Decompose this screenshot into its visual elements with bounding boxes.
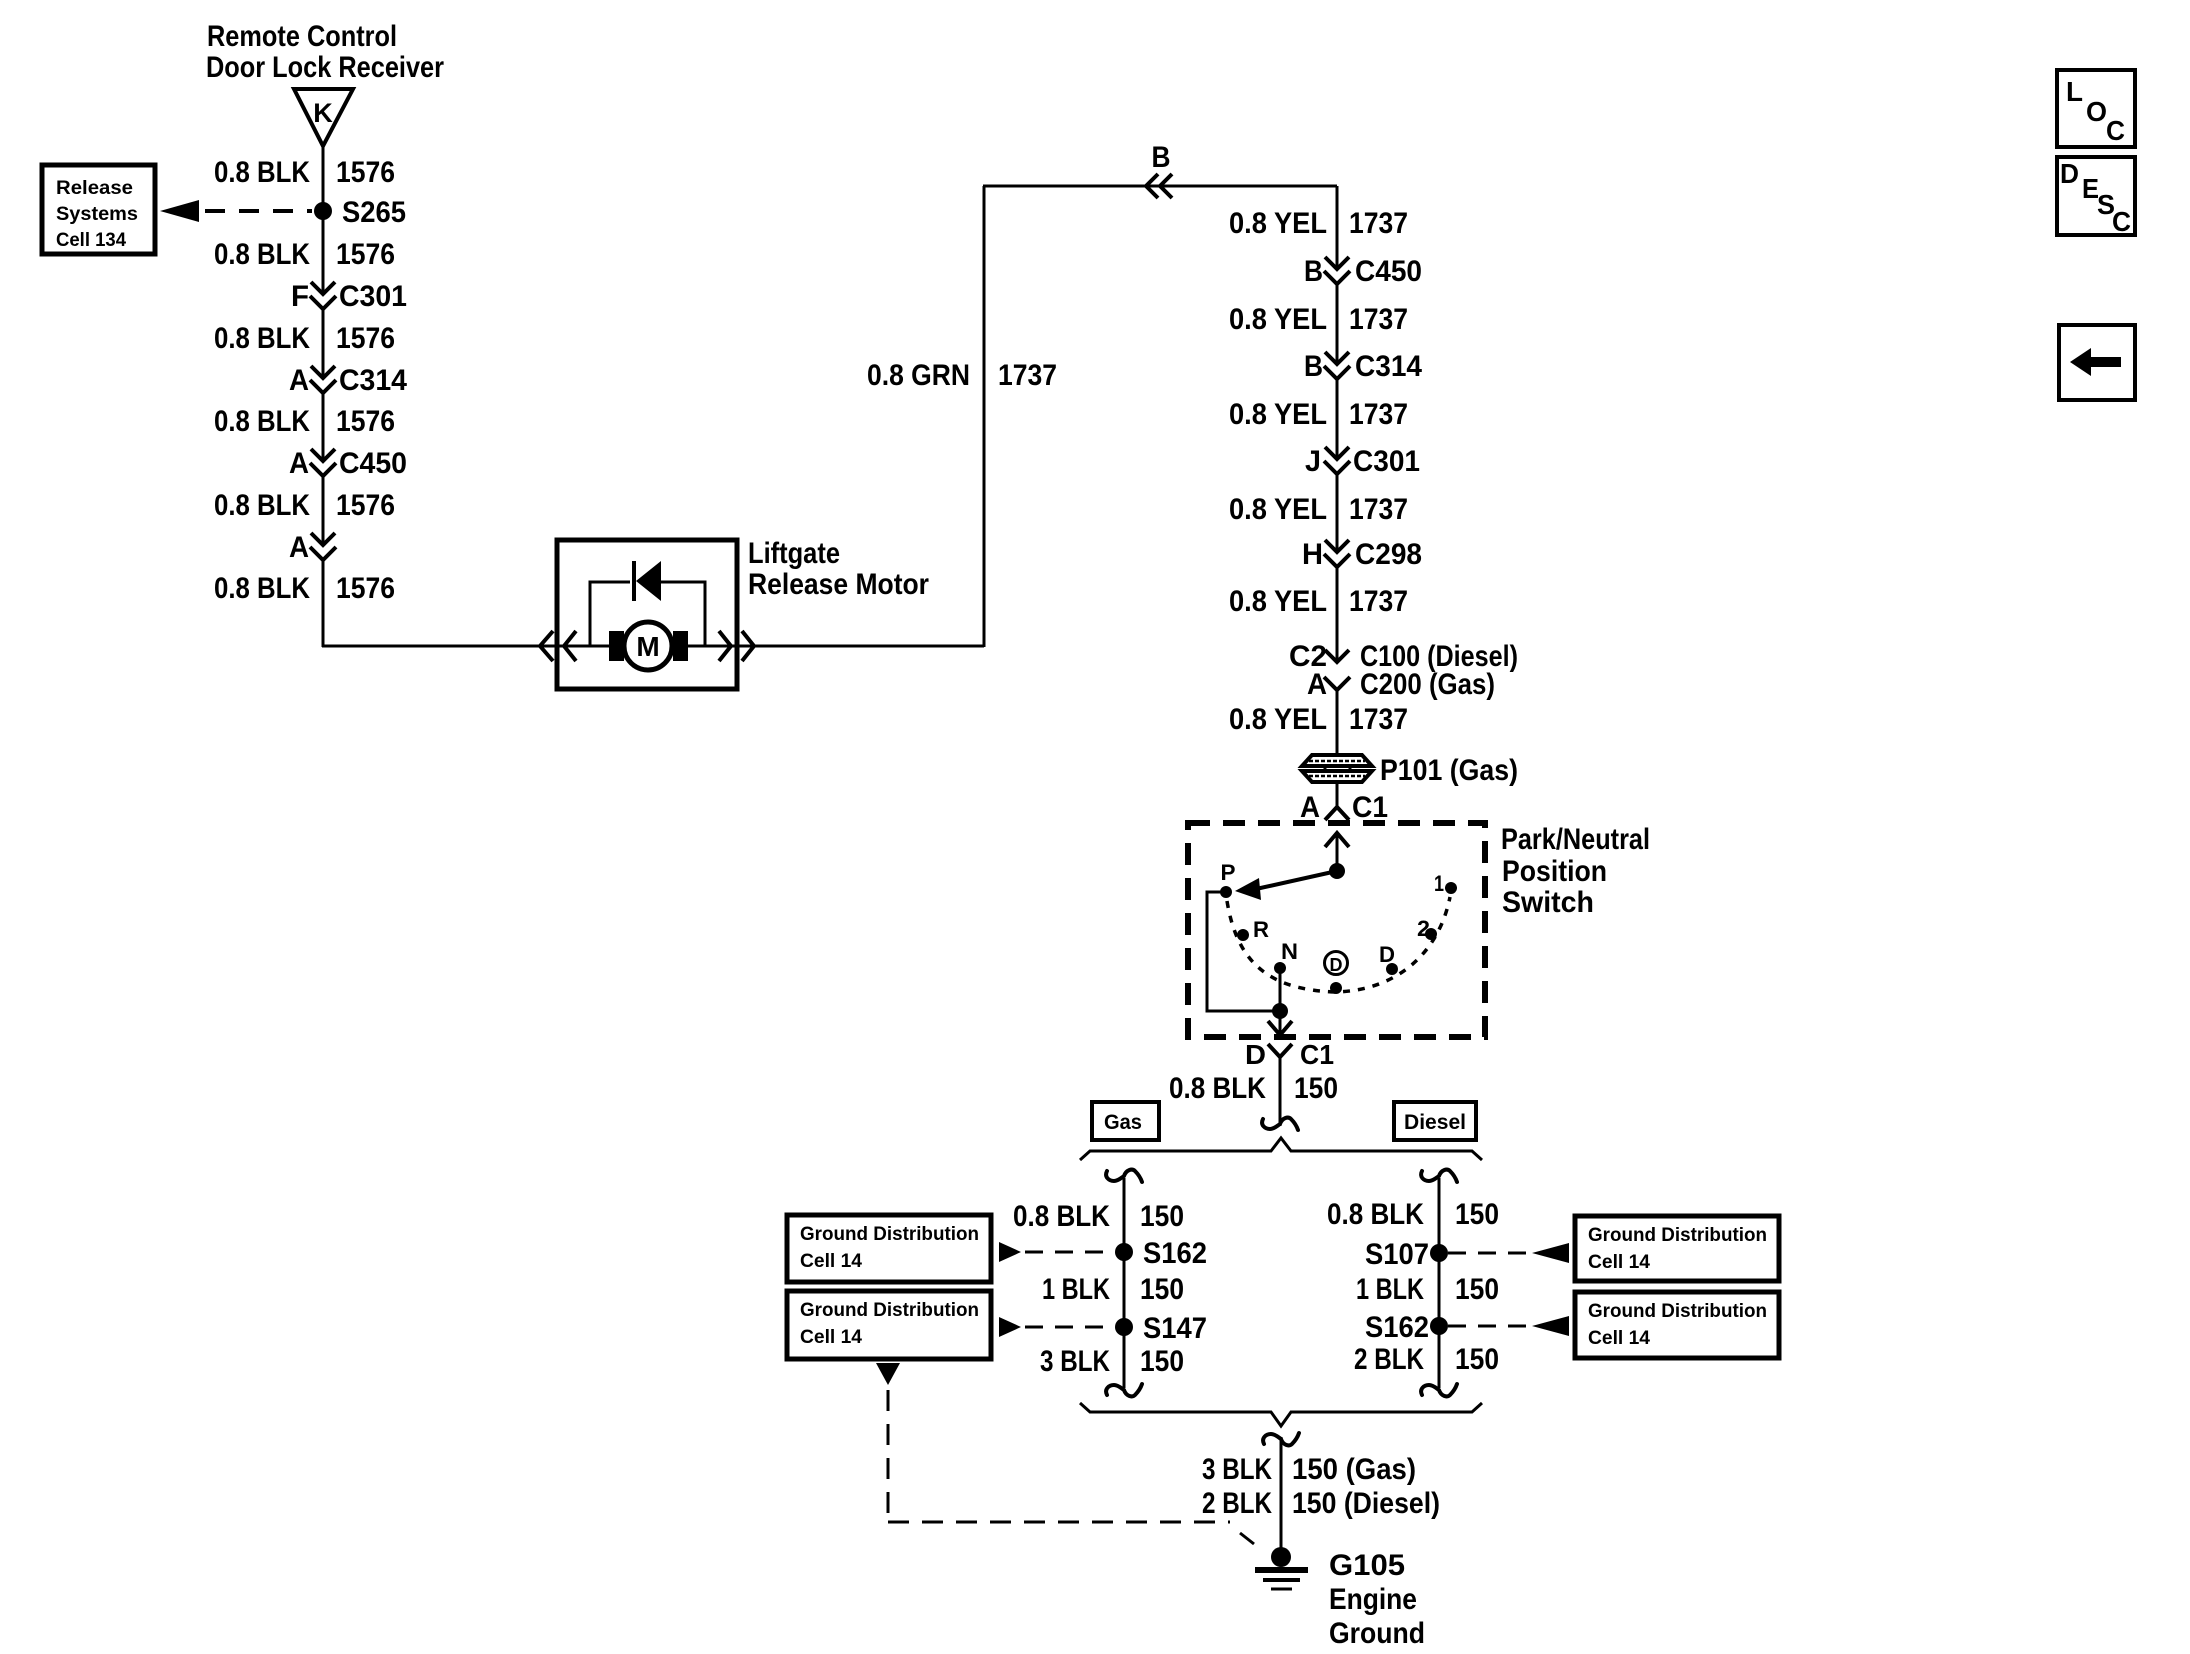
svg-text:O: O [2086,96,2107,127]
svg-text:150: 150 [1294,1072,1338,1105]
svg-text:Engine: Engine [1329,1583,1417,1616]
N contact drop wire [1279,970,1282,1011]
svg-text:Release: Release [56,178,133,199]
svg-text:Cell 14: Cell 14 [800,1251,862,1272]
contact N [1274,962,1286,974]
wire 0.8 YEL 1737 [1336,283,1339,363]
reference box: Ground Distribution Cell 14 (right lower) [1575,1292,1779,1358]
svg-text:1576: 1576 [336,156,395,189]
svg-text:3 BLK: 3 BLK [1040,1345,1110,1378]
gas branch wire bottom curl [1106,1384,1142,1396]
wire: K to S265 (0.8 BLK 1576) [322,146,325,293]
svg-text:C301: C301 [1353,445,1420,478]
svg-text:Cell 14: Cell 14 [800,1327,862,1348]
svg-text:P: P [1221,860,1236,885]
arrow + dashed reference from S162 [1448,1325,1528,1328]
svg-text:1: 1 [1434,871,1444,896]
svg-text:1737: 1737 [1349,493,1408,526]
svg-text:150: 150 [1140,1345,1184,1378]
svg-text:150: 150 [1455,1343,1499,1376]
wire 0.8 YEL 1737 [1336,186,1339,268]
dashed contact arc P-R-N-D-D-2-1 [1227,897,1450,992]
svg-text:0.8 YEL: 0.8 YEL [1229,303,1327,336]
motor brushes [609,631,624,661]
in-line connector A (unnamed) [311,533,335,545]
svg-text:D: D [1245,1039,1266,1070]
svg-text:Diesel: Diesel [1404,1111,1466,1134]
svg-text:Ground Distribution: Ground Distribution [1588,1225,1767,1246]
legend box LOC [2057,70,2135,147]
svg-text:C1: C1 [1352,791,1388,824]
options bracket (bottom, merge) [1080,1403,1482,1426]
svg-text:D: D [1330,955,1343,975]
svg-text:0.8 BLK: 0.8 BLK [1327,1198,1424,1231]
svg-text:L: L [2066,76,2083,107]
svg-text:Liftgate: Liftgate [748,537,840,570]
splice S162 (gas) [1115,1243,1133,1261]
switch common node [1329,863,1345,879]
wire 0.8 YEL 1737 [1336,473,1339,551]
dashed reference: Ground Distribution Cell 14 to G105 [876,1363,900,1385]
svg-text:1576: 1576 [336,238,395,271]
svg-text:150 (Gas): 150 (Gas) [1292,1453,1416,1486]
svg-text:H: H [1302,538,1323,571]
svg-text:150: 150 [1140,1200,1184,1233]
wire: top run to right column [983,185,1337,188]
svg-text:0.8 YEL: 0.8 YEL [1229,585,1327,618]
splice S265 [314,202,332,220]
svg-text:J: J [1305,445,1321,478]
svg-text:C1: C1 [1300,1039,1334,1070]
svg-text:1737: 1737 [1349,585,1408,618]
svg-text:S147: S147 [1143,1312,1207,1345]
svg-text:C298: C298 [1355,538,1422,571]
svg-text:1737: 1737 [998,359,1057,392]
svg-text:Door Lock Receiver: Door Lock Receiver [206,51,444,84]
options bracket (top) [1080,1138,1482,1160]
in-line connector A C450 [311,449,335,461]
svg-text:Gas: Gas [1104,1111,1142,1134]
svg-text:150: 150 [1455,1273,1499,1306]
legend box back-arrow [2059,325,2135,400]
svg-text:C450: C450 [1355,255,1422,288]
svg-text:0.8 BLK: 0.8 BLK [214,156,310,189]
wire 0.8 BLK 1576 [322,475,325,544]
svg-text:S162: S162 [1365,1311,1429,1344]
svg-text:C: C [2112,206,2131,237]
svg-text:G105: G105 [1329,1549,1405,1582]
wire 0.8 YEL 1737 [1336,378,1339,458]
svg-text:1576: 1576 [336,489,395,522]
svg-text:1737: 1737 [1349,207,1408,240]
svg-text:3 BLK: 3 BLK [1202,1453,1272,1486]
svg-text:C450: C450 [339,447,407,480]
svg-text:S107: S107 [1365,1238,1429,1271]
splice S162 (diesel) [1430,1317,1448,1335]
svg-text:M: M [636,631,659,662]
svg-text:C314: C314 [1355,350,1422,383]
diesel branch wire bottom curl [1421,1384,1457,1396]
wire: left column to liftgate release motor [322,645,557,648]
svg-text:Release Motor: Release Motor [748,568,929,601]
arrow + dashed reference to S147 [999,1317,1021,1337]
reference box: Release Systems Cell 134 [42,165,155,254]
svg-text:Park/Neutral: Park/Neutral [1501,823,1650,856]
svg-text:A: A [289,364,309,397]
connector K triangle (Remote Control Door Lock Receiver pin K) [294,89,353,146]
contact D [1386,963,1398,975]
wire 0.8 BLK 150 from switch [1279,1057,1282,1126]
contact D (circled = drive) [1330,982,1342,994]
connector half A C1 (female) [1325,807,1349,820]
reference box: Ground Distribution Cell 14 (right upper) [1575,1216,1779,1281]
svg-text:A: A [1307,668,1327,701]
svg-text:0.8 BLK: 0.8 BLK [214,405,310,438]
svg-text:1737: 1737 [1349,398,1408,431]
wire 0.8 YEL 1737 [1336,690,1339,757]
svg-text:1737: 1737 [1349,703,1408,736]
arrow + dashed reference from S107 [1448,1252,1528,1255]
wire 0.8 BLK 1576 [322,308,325,377]
svg-text:S265: S265 [342,196,406,229]
svg-text:2: 2 [1417,916,1430,941]
wire to A C1 [1336,781,1339,807]
junction at switch output [1272,1003,1288,1019]
svg-text:0.8 YEL: 0.8 YEL [1229,703,1327,736]
gas branch wire 0.8 BLK 150 [1123,1178,1126,1388]
contact 2 [1425,928,1437,940]
svg-text:C314: C314 [339,364,407,397]
svg-text:2 BLK: 2 BLK [1354,1343,1424,1376]
svg-text:0.8 BLK: 0.8 BLK [214,572,310,605]
svg-text:Ground Distribution: Ground Distribution [800,1224,979,1245]
svg-text:A: A [289,447,309,480]
in-line connector B C314 [1325,352,1349,364]
in-line connector H C298 [1325,540,1349,552]
svg-text:Systems: Systems [56,204,138,225]
wire 3 BLK 150 (Gas) / 2 BLK 150 (Diesel) to G105 [1280,1437,1283,1550]
svg-text:A: A [1300,791,1320,824]
svg-text:2 BLK: 2 BLK [1202,1487,1272,1520]
in-line connector B C450 [1325,257,1349,269]
wire end curl above options bracket [1262,1118,1298,1130]
in-line connector C2 C100 (Diesel) / A C200 (Gas) [1325,650,1349,662]
merged wire top curl [1263,1433,1299,1445]
svg-text:A: A [289,531,309,564]
svg-text:S162: S162 [1143,1237,1207,1270]
svg-text:N: N [1281,939,1298,964]
motor armature M [624,622,672,670]
svg-text:0.8 GRN: 0.8 GRN [867,359,970,392]
svg-text:Ground: Ground [1329,1617,1425,1650]
liftgate release motor box [557,540,737,689]
svg-text:1576: 1576 [336,322,395,355]
svg-text:R: R [1253,917,1269,942]
svg-text:Cell 14: Cell 14 [1588,1252,1650,1273]
diesel branch wire 0.8 BLK 150 [1438,1178,1441,1388]
svg-text:0.8 YEL: 0.8 YEL [1229,207,1327,240]
svg-text:C: C [2106,115,2125,146]
svg-text:C301: C301 [339,280,407,313]
wire 0.8 BLK 1576 [322,392,325,460]
svg-text:1 BLK: 1 BLK [1356,1273,1424,1306]
contact 1 [1445,882,1457,894]
svg-text:0.8 BLK: 0.8 BLK [214,322,310,355]
switch input pin arrow (male half of C1 pin A) [1325,833,1349,847]
switch wiper arm to P contact [1256,871,1337,889]
svg-text:Remote Control: Remote Control [207,20,397,53]
svg-text:D: D [2060,158,2079,189]
option label box Diesel [1394,1102,1476,1140]
in-line connector F C301 [311,282,335,294]
wire 0.8 YEL 1737 [1336,566,1339,661]
svg-text:Switch: Switch [1502,886,1594,919]
svg-text:Cell 14: Cell 14 [1588,1328,1650,1349]
switch output wiring: P stub, left leg, bottom leg to N junction [1207,892,1280,1011]
svg-text:C200 (Gas): C200 (Gas) [1360,668,1495,701]
legend box DESC [2057,157,2135,235]
svg-text:1737: 1737 [1349,303,1408,336]
diesel branch wire top curl [1421,1170,1457,1182]
park/neutral position switch dashed box [1188,823,1485,1037]
motor pin chevrons right [719,631,731,661]
reference box: Ground Distribution Cell 14 (left upper) [787,1215,991,1282]
svg-text:B: B [1152,141,1171,174]
svg-text:0.8 BLK: 0.8 BLK [214,238,310,271]
svg-text:P101 (Gas): P101 (Gas) [1380,754,1518,787]
svg-text:150: 150 [1140,1273,1184,1306]
svg-text:1 BLK: 1 BLK [1042,1273,1110,1306]
svg-text:Position: Position [1502,855,1607,888]
ground G105 [1271,1547,1291,1567]
motor pin chevrons left [540,631,553,661]
wire: motor to corner (0.8 GRN 1737) [737,645,984,648]
grommet P101 (Gas) [1302,755,1372,766]
svg-text:0.8 YEL: 0.8 YEL [1229,493,1327,526]
reference box: Ground Distribution Cell 14 (left lower) [787,1291,991,1359]
svg-text:Ground Distribution: Ground Distribution [1588,1301,1767,1322]
wire through motor [557,645,737,648]
svg-text:150: 150 [1455,1198,1499,1231]
svg-text:F: F [291,280,309,313]
clamp diode (cathode bar + triangle) [632,561,636,601]
contact R [1237,929,1249,941]
output arrow through switch box (pin D) [1279,1011,1282,1033]
svg-text:K: K [313,98,333,128]
svg-text:1576: 1576 [336,405,395,438]
clamp diode loop [590,582,630,646]
svg-text:0.8 BLK: 0.8 BLK [1013,1200,1110,1233]
svg-text:150 (Diesel): 150 (Diesel) [1292,1487,1440,1520]
connector half D C1 (female, Y) [1268,1044,1292,1057]
svg-text:Cell 134: Cell 134 [56,230,126,251]
wire 0.8 BLK 1576 down to motor [322,559,325,647]
svg-text:0.8 YEL: 0.8 YEL [1229,398,1327,431]
in-line connector J C301 [1325,447,1349,459]
svg-text:0.8 BLK: 0.8 BLK [1169,1072,1266,1105]
svg-text:B: B [1304,255,1323,288]
gas branch wire top curl [1106,1170,1142,1182]
splice S147 (gas) [1115,1318,1133,1336]
svg-text:1576: 1576 [336,572,395,605]
arrow + dashed reference to S162 [999,1242,1021,1262]
splice S107 (diesel) [1430,1244,1448,1262]
dashed reference: S265 to Release Systems Cell 134 [205,209,312,213]
svg-text:D: D [1379,942,1395,967]
contact P [1220,886,1232,898]
svg-text:0.8 BLK: 0.8 BLK [214,489,310,522]
svg-text:B: B [1304,350,1323,383]
in-line connector A C314 [311,366,335,378]
option label box Gas [1092,1102,1159,1140]
svg-text:Ground Distribution: Ground Distribution [800,1300,979,1321]
